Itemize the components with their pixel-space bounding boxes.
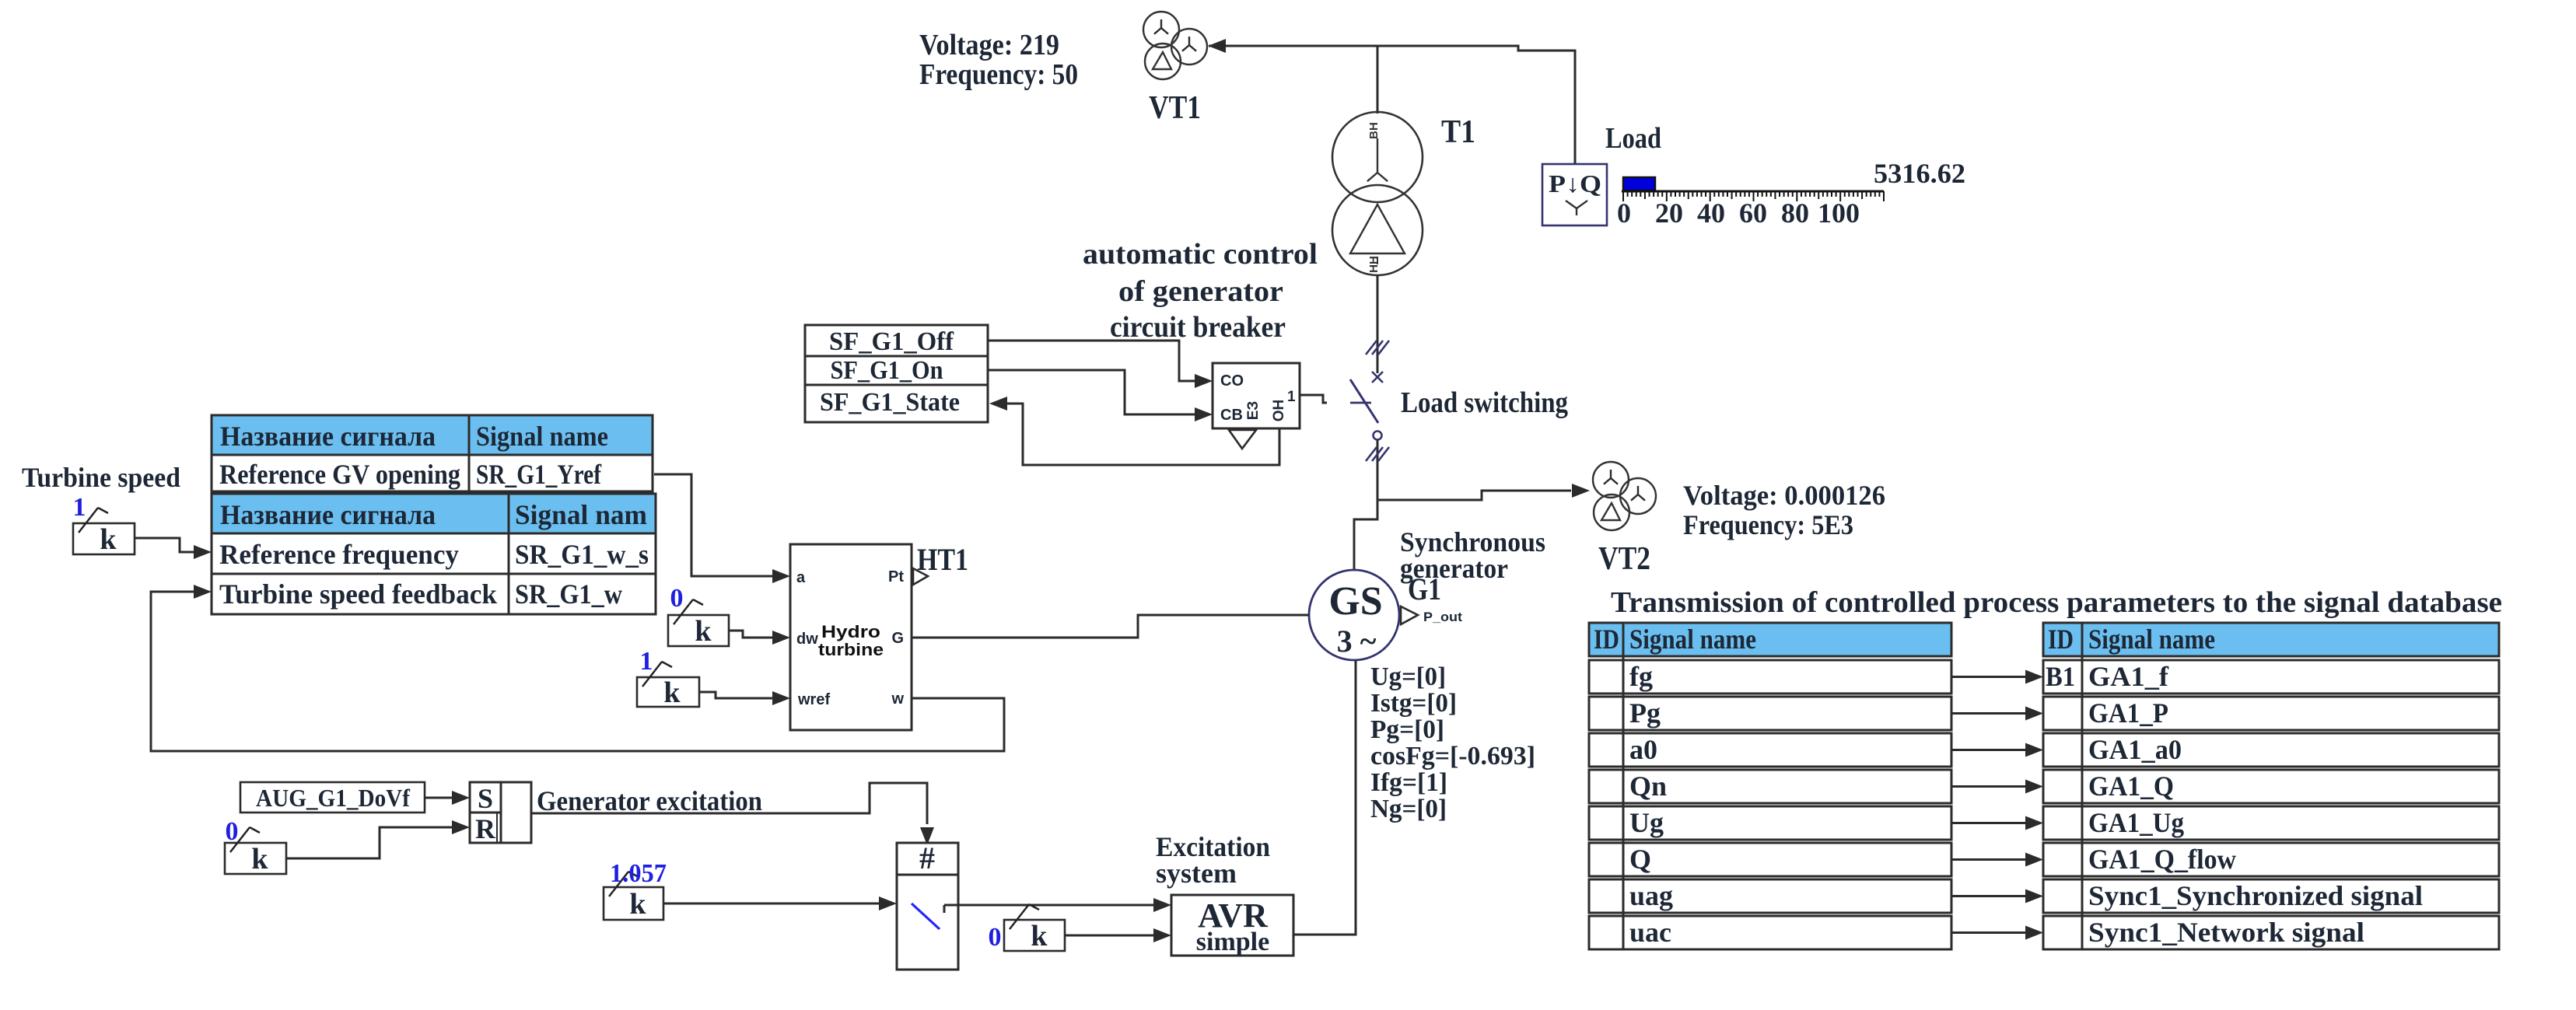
svg-text:fg: fg: [1629, 661, 1653, 692]
svg-text:Qn: Qn: [1629, 771, 1667, 802]
svg-text:Voltage: 219: Voltage: 219: [919, 29, 1059, 61]
svg-text:Istg=[0]: Istg=[0]: [1370, 689, 1457, 718]
svg-text:R: R: [475, 813, 496, 844]
svg-text:Signal name: Signal name: [1629, 624, 1756, 655]
svg-text:Ifg=[1]: Ifg=[1]: [1370, 768, 1447, 797]
svg-text:Reference GV opening: Reference GV opening: [219, 459, 460, 490]
svg-text:100: 100: [1818, 197, 1860, 229]
svg-text:k: k: [695, 615, 712, 648]
svg-text:Voltage: 0.000126: Voltage: 0.000126: [1683, 480, 1885, 511]
svg-text:CB: CB: [1220, 407, 1243, 424]
svg-text:Pt: Pt: [888, 568, 904, 585]
svg-text:a0: a0: [1629, 734, 1657, 765]
svg-text:P_out: P_out: [1423, 610, 1462, 624]
svg-text:AUG_G1_DoVf: AUG_G1_DoVf: [256, 784, 410, 812]
svg-text:GA1_Q: GA1_Q: [2088, 771, 2174, 802]
svg-text:5316.62: 5316.62: [1874, 158, 1965, 189]
svg-text:Q: Q: [1629, 844, 1651, 875]
svg-text:Sync1_Synchronized signal: Sync1_Synchronized signal: [2088, 880, 2423, 911]
svg-text:1: 1: [73, 493, 86, 522]
svg-text:T1: T1: [1441, 114, 1475, 150]
svg-text:Ng=[0]: Ng=[0]: [1370, 795, 1447, 823]
svg-text:system: system: [1156, 858, 1237, 889]
svg-text:#: #: [919, 841, 935, 875]
svg-text:GA1_Q_flow: GA1_Q_flow: [2088, 844, 2236, 875]
svg-text:GA1_f: GA1_f: [2088, 661, 2169, 692]
svg-text:Signal nam: Signal nam: [515, 499, 647, 530]
svg-text:40: 40: [1697, 197, 1725, 229]
svg-text:VT2: VT2: [1598, 541, 1650, 577]
svg-text:S: S: [478, 783, 493, 814]
svg-text:ВН: ВН: [1367, 122, 1381, 139]
svg-text:turbine: turbine: [818, 640, 884, 659]
svg-text:НН: НН: [1367, 256, 1381, 273]
svg-text:1.057: 1.057: [610, 859, 667, 888]
svg-text:simple: simple: [1196, 928, 1269, 956]
svg-text:GA1_a0: GA1_a0: [2088, 734, 2182, 765]
svg-text:a: a: [796, 569, 806, 586]
svg-text:Load switching: Load switching: [1401, 386, 1568, 419]
svg-text:Load: Load: [1605, 122, 1661, 155]
svg-text:1: 1: [1287, 389, 1296, 405]
svg-text:Generator excitation: Generator excitation: [537, 785, 762, 816]
svg-text:0: 0: [226, 817, 239, 846]
svg-text:Sync1_Network signal: Sync1_Network signal: [2088, 917, 2364, 948]
svg-text:0: 0: [989, 923, 1002, 952]
svg-text:CO: CO: [1220, 372, 1244, 390]
svg-text:Название сигнала: Название сигнала: [220, 499, 436, 530]
svg-text:ЕЗ: ЕЗ: [1245, 401, 1262, 421]
svg-text:3 ~: 3 ~: [1337, 624, 1377, 659]
svg-text:20: 20: [1655, 197, 1683, 229]
svg-text:uac: uac: [1629, 917, 1671, 948]
svg-text:Pg: Pg: [1629, 697, 1661, 729]
svg-text:1: 1: [640, 647, 653, 676]
svg-text:SF_G1_Off: SF_G1_Off: [829, 327, 954, 356]
svg-text:GA1_Ug: GA1_Ug: [2088, 807, 2184, 838]
svg-text:Turbine speed feedback: Turbine speed feedback: [219, 578, 497, 610]
svg-text:ОН: ОН: [1271, 400, 1287, 422]
svg-text:ID: ID: [2048, 624, 2074, 655]
svg-text:SR_G1_w_s: SR_G1_w_s: [515, 539, 649, 570]
svg-text:Ug=[0]: Ug=[0]: [1370, 662, 1446, 691]
svg-text:Ug: Ug: [1629, 807, 1664, 838]
svg-text:automatic control: automatic control: [1083, 238, 1318, 271]
svg-text:wref: wref: [797, 691, 830, 708]
svg-text:Frequency: 50: Frequency: 50: [919, 58, 1078, 91]
svg-text:SF_G1_State: SF_G1_State: [820, 388, 960, 417]
svg-text:Signal name: Signal name: [2088, 624, 2215, 655]
svg-text:Frequency: 5E3: Frequency: 5E3: [1683, 509, 1853, 540]
svg-text:k: k: [663, 676, 681, 709]
svg-text:of generator: of generator: [1118, 275, 1283, 308]
svg-text:Signal name: Signal name: [476, 421, 608, 452]
svg-text:Transmission of controlled pro: Transmission of controlled process param…: [1611, 586, 2502, 619]
svg-text:VT1: VT1: [1149, 90, 1201, 126]
svg-text:80: 80: [1781, 197, 1809, 229]
svg-text:Pg=[0]: Pg=[0]: [1370, 715, 1444, 744]
svg-text:60: 60: [1739, 197, 1767, 229]
svg-text:uag: uag: [1629, 880, 1673, 911]
svg-text:circuit breaker: circuit breaker: [1110, 311, 1286, 344]
svg-text:ID: ID: [1594, 624, 1619, 655]
svg-text:0: 0: [1617, 197, 1631, 229]
svg-text:k: k: [1031, 920, 1048, 952]
svg-text:SR_G1_Yref: SR_G1_Yref: [476, 459, 602, 490]
svg-text:G: G: [891, 630, 904, 647]
svg-text:P↓Q: P↓Q: [1549, 169, 1601, 197]
svg-text:w: w: [891, 690, 904, 708]
svg-text:Hydro: Hydro: [821, 622, 880, 641]
svg-text:Reference frequency: Reference frequency: [219, 539, 459, 570]
svg-text:GS: GS: [1328, 579, 1382, 624]
svg-text:HT1: HT1: [917, 542, 968, 577]
svg-text:dw: dw: [796, 631, 818, 648]
svg-text:k: k: [251, 843, 268, 875]
svg-text:Название сигнала: Название сигнала: [220, 421, 436, 452]
svg-text:k: k: [100, 523, 117, 556]
svg-text:GA1_P: GA1_P: [2088, 697, 2168, 729]
svg-text:k: k: [629, 888, 646, 921]
svg-text:B1: B1: [2046, 661, 2075, 692]
svg-text:Turbine speed: Turbine speed: [22, 462, 180, 493]
svg-text:0: 0: [670, 584, 684, 613]
svg-text:G1: G1: [1408, 571, 1441, 606]
svg-text:SF_G1_On: SF_G1_On: [831, 356, 943, 385]
svg-text:SR_G1_w: SR_G1_w: [515, 578, 622, 610]
svg-text:cosFg=[-0.693]: cosFg=[-0.693]: [1370, 742, 1535, 771]
